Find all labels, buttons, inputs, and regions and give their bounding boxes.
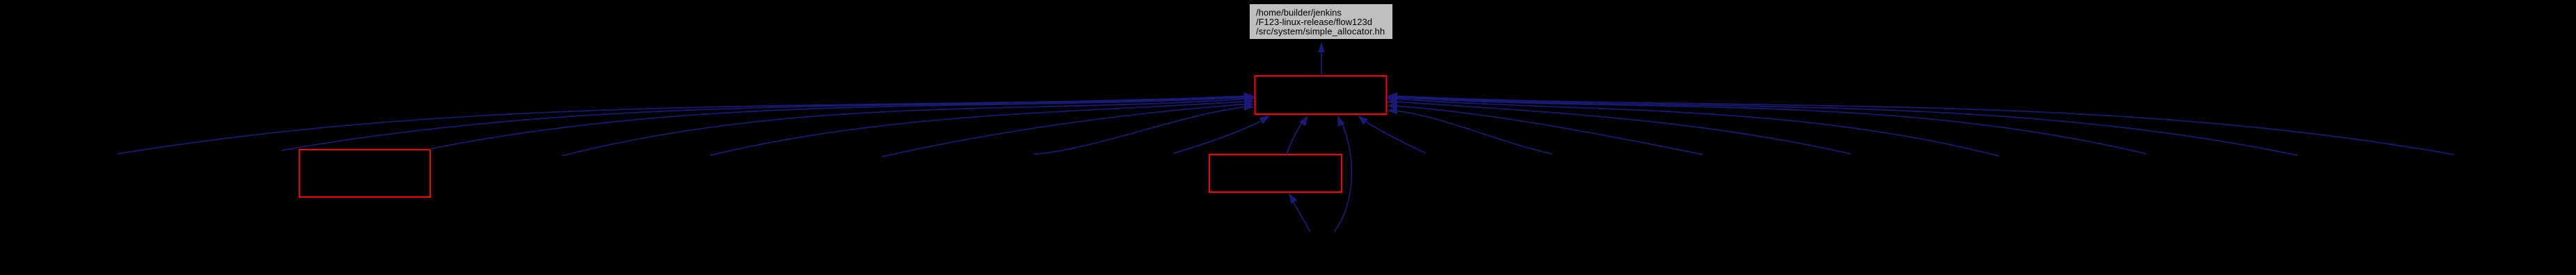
edge L8 -> N1 (steep, into bottom-left of center box)	[1174, 116, 1270, 153]
edge N1 -> U0 (vertical arrow up to gray box)	[1318, 42, 1325, 77]
edge D2 -> N1 (bowed curve around right side of lower box)	[1334, 116, 1351, 232]
edge R3 -> N1	[1387, 98, 1851, 154]
node N1: direct includer (red box, center)	[1255, 76, 1387, 114]
edge R4 -> N1	[1387, 95, 1999, 156]
edge L2 -> N1	[282, 93, 1255, 150]
edge L1 -> N1 (far-left node)	[118, 93, 1255, 154]
node N3: second-level includer (red box, left)	[299, 150, 430, 197]
edge N3 -> N1 (from left red box)	[430, 94, 1255, 149]
edge R1 -> N1	[1387, 107, 1552, 154]
edge R6 -> N1	[1387, 93, 2298, 155]
edge R7 -> N1 (far-right node)	[1387, 93, 2454, 155]
edge L6 -> N1	[882, 100, 1255, 157]
edge L5 -> N1	[710, 97, 1255, 155]
edge L7 -> N1 (S-curve from near-left node)	[1034, 103, 1255, 154]
edge R0 -> N1 (steep, into bottom-right of center box)	[1358, 116, 1426, 153]
svg-text:/src/system/simple_allocator.h: /src/system/simple_allocator.hh	[1256, 26, 1385, 37]
edge R5 -> N1	[1387, 94, 2146, 154]
edge N2 -> N1 (from lower red box up to center box bottom)	[1287, 116, 1308, 155]
edge L4 -> N1	[562, 95, 1255, 156]
node U0: current file /src/system/simple_allocator.hh (gray label box)	[1250, 4, 1392, 39]
edge R2 -> N1	[1387, 102, 1703, 155]
node N2: second-level includer (red box, below center)	[1209, 155, 1342, 192]
edge D1 -> N2 (arrow into bottom of lower red box)	[1289, 194, 1310, 233]
